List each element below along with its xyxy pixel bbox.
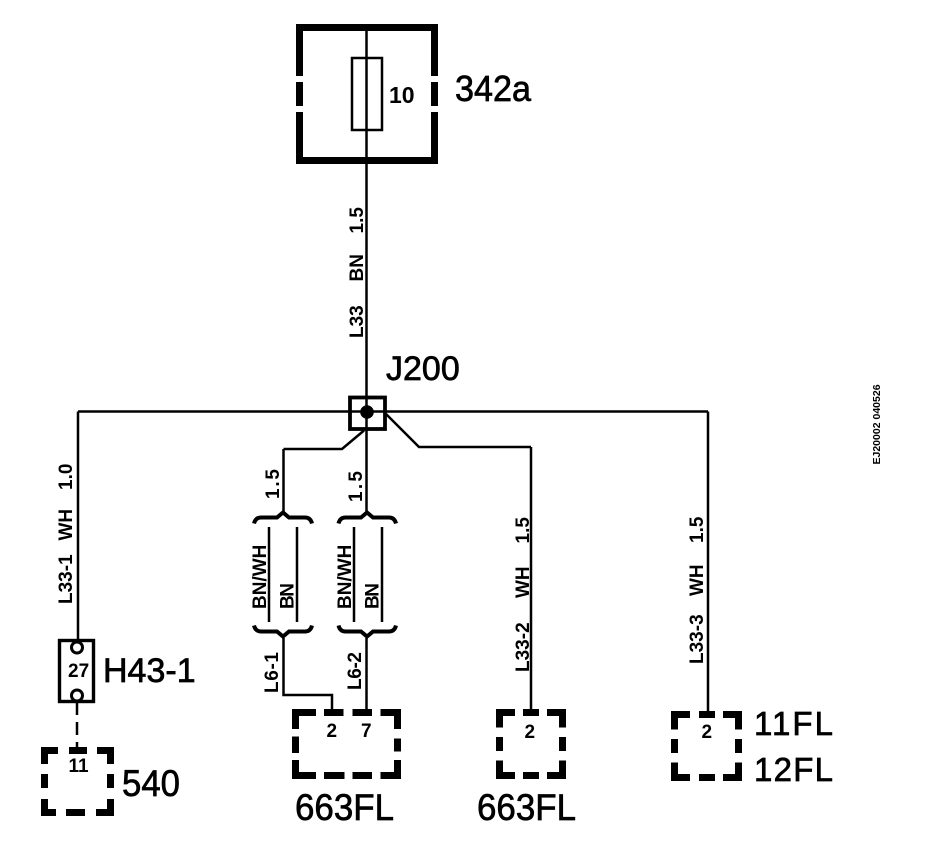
svg-text:2: 2 <box>525 722 536 743</box>
brace bottom branch 2 <box>339 626 397 637</box>
svg-text:BN: BN <box>278 583 299 609</box>
connector box 11FL/12FL (dashed) <box>675 715 739 778</box>
connector box 540 (dashed) <box>45 751 111 813</box>
connector box 663FL #1 (dashed) <box>296 713 398 776</box>
twisted section line BN/WH (2) <box>353 527 356 622</box>
wire diagonal junction to branch L6-1 <box>284 431 365 450</box>
terminal circle top <box>72 642 83 653</box>
wire branch L33-3 vertical <box>707 412 710 714</box>
svg-text:7: 7 <box>361 721 372 742</box>
svg-text:BN: BN <box>347 254 368 281</box>
svg-text:BN/WH: BN/WH <box>250 545 271 609</box>
wire L6-1 to connector <box>284 638 333 712</box>
svg-text:1.5: 1.5 <box>263 469 284 499</box>
svg-text:12FL: 12FL <box>754 751 833 788</box>
svg-text:1.5: 1.5 <box>346 471 367 502</box>
connector H43-1 <box>60 641 94 702</box>
twisted section line BN (1) <box>296 527 299 622</box>
svg-text:10: 10 <box>389 82 415 108</box>
wire L33 main vertical <box>365 28 368 430</box>
wire dashed H43-1 to 540 <box>76 702 79 747</box>
svg-text:11: 11 <box>69 756 90 777</box>
junction box J200 <box>350 398 385 430</box>
svg-text:1.5: 1.5 <box>347 207 368 234</box>
svg-text:540: 540 <box>122 762 180 804</box>
brace top branch 1 <box>254 513 312 524</box>
svg-text:H43-1: H43-1 <box>103 652 196 690</box>
wire branch L6-1 down <box>282 449 285 512</box>
svg-text:WH: WH <box>513 566 534 598</box>
svg-text:1.5: 1.5 <box>687 516 708 543</box>
brace bottom branch 1 <box>254 626 312 637</box>
svg-text:2: 2 <box>702 722 713 743</box>
svg-text:WH: WH <box>687 564 708 596</box>
svg-text:1.5: 1.5 <box>513 517 534 544</box>
svg-text:BN: BN <box>363 583 384 609</box>
svg-text:EJ20002: EJ20002 <box>871 422 883 464</box>
svg-text:1.0: 1.0 <box>56 464 77 490</box>
svg-text:L33: L33 <box>347 305 368 338</box>
twisted section line BN (2) <box>381 527 384 622</box>
svg-text:L33-3: L33-3 <box>687 614 708 664</box>
svg-text:2: 2 <box>327 721 338 742</box>
svg-text:663FL: 663FL <box>477 787 576 828</box>
twisted section line BN/WH (1) <box>268 527 271 622</box>
fuse F10 <box>352 58 382 130</box>
svg-text:J200: J200 <box>386 350 460 388</box>
svg-text:L6-2: L6-2 <box>345 652 366 690</box>
svg-text:11FL: 11FL <box>754 705 833 742</box>
wire L6-2 to connector <box>365 638 368 712</box>
svg-text:L33-2: L33-2 <box>513 622 534 672</box>
connector box 663FL #2 (dashed) <box>500 713 563 776</box>
svg-text:040526: 040526 <box>871 384 883 419</box>
junction dot J200 <box>360 405 374 419</box>
svg-text:L6-1: L6-1 <box>262 652 283 693</box>
wire diagonal junction to branch L33-2 <box>386 414 531 447</box>
svg-text:663FL: 663FL <box>295 787 394 828</box>
wire left branch vertical L33-1 <box>77 412 80 643</box>
fuse holder box 342a <box>296 24 438 164</box>
terminal circle bottom <box>72 690 83 701</box>
wire branch L33-2 vertical <box>530 447 533 712</box>
svg-text:342a: 342a <box>455 68 532 109</box>
svg-text:BN/WH: BN/WH <box>335 545 356 609</box>
wire through fuse <box>365 58 368 130</box>
wire main horizontal bus <box>78 410 708 413</box>
svg-text:WH: WH <box>56 509 77 541</box>
wire branch L6-2 down from junction <box>365 430 368 512</box>
svg-text:L33-1: L33-1 <box>56 554 77 604</box>
brace top branch 2 <box>339 513 397 524</box>
svg-text:27: 27 <box>68 661 89 682</box>
